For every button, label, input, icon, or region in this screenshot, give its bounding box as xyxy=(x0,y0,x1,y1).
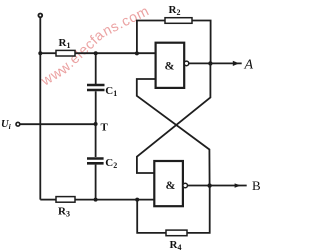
wire: C1 top lead xyxy=(95,53,97,84)
svg-text:&: & xyxy=(166,178,176,192)
node: A junction xyxy=(208,61,212,65)
svg-text:R3: R3 xyxy=(58,205,70,218)
resistor R1 xyxy=(56,50,75,56)
svg-text:Ui: Ui xyxy=(1,119,12,131)
wire: A node down and cross to U2 input1 xyxy=(137,63,211,173)
wire: U2 output to arrow B xyxy=(188,185,247,187)
svg-text:A: A xyxy=(244,58,254,73)
wire: R4 left branch xyxy=(137,200,166,233)
capacitor C1 xyxy=(87,84,105,87)
node: B junction xyxy=(207,183,211,187)
input terminal Ui xyxy=(16,122,20,126)
node T xyxy=(94,122,98,126)
wire: C2 bottom lead xyxy=(95,165,97,200)
capacitor C2 xyxy=(87,157,104,160)
svg-text:B: B xyxy=(252,178,261,193)
wire: left vertical rail xyxy=(39,18,41,200)
wire: R2 left branch xyxy=(137,21,165,54)
node: R4 left junction xyxy=(135,198,139,202)
wire: bottom-left corner to R3 xyxy=(40,199,56,201)
svg-text:C2: C2 xyxy=(105,157,117,170)
wire: R4 right branch up to B node xyxy=(187,186,210,233)
svg-text:&: & xyxy=(165,59,175,73)
nand gate U1 xyxy=(156,43,185,88)
node: junction R2/U1 input xyxy=(135,51,139,55)
wire: R2 right branch down to A node xyxy=(192,21,211,64)
nand gate U2 xyxy=(154,161,183,206)
resistor R4 xyxy=(166,230,187,236)
wire: junction to R1 xyxy=(40,52,56,54)
wire: R3 right to gate U2 input 2 xyxy=(75,199,154,201)
resistor R3 xyxy=(56,197,75,203)
resistor R2 xyxy=(165,18,192,24)
svg-text:C1: C1 xyxy=(105,85,117,98)
wire: U1 output to arrow A xyxy=(189,62,242,64)
svg-text:T: T xyxy=(101,122,109,134)
wire: T to C2 xyxy=(95,124,97,157)
svg-text:R1: R1 xyxy=(59,37,71,50)
wire: Ui to node T xyxy=(20,123,96,125)
arrowhead B xyxy=(235,183,241,187)
node: C1 top junction xyxy=(94,51,98,55)
svg-text:R2: R2 xyxy=(169,4,181,17)
input terminal (top) xyxy=(38,14,42,18)
wire: R1 right to gate U1 input 1 xyxy=(75,52,156,54)
arrowhead A xyxy=(233,61,239,66)
node: junction at R1 left xyxy=(38,51,42,55)
wire: C1 bottom lead to T xyxy=(95,91,97,124)
wire: U1 input2 feedback (to B output) xyxy=(137,79,210,186)
svg-text:R4: R4 xyxy=(170,239,182,252)
node: C2 bottom junction xyxy=(94,198,98,202)
